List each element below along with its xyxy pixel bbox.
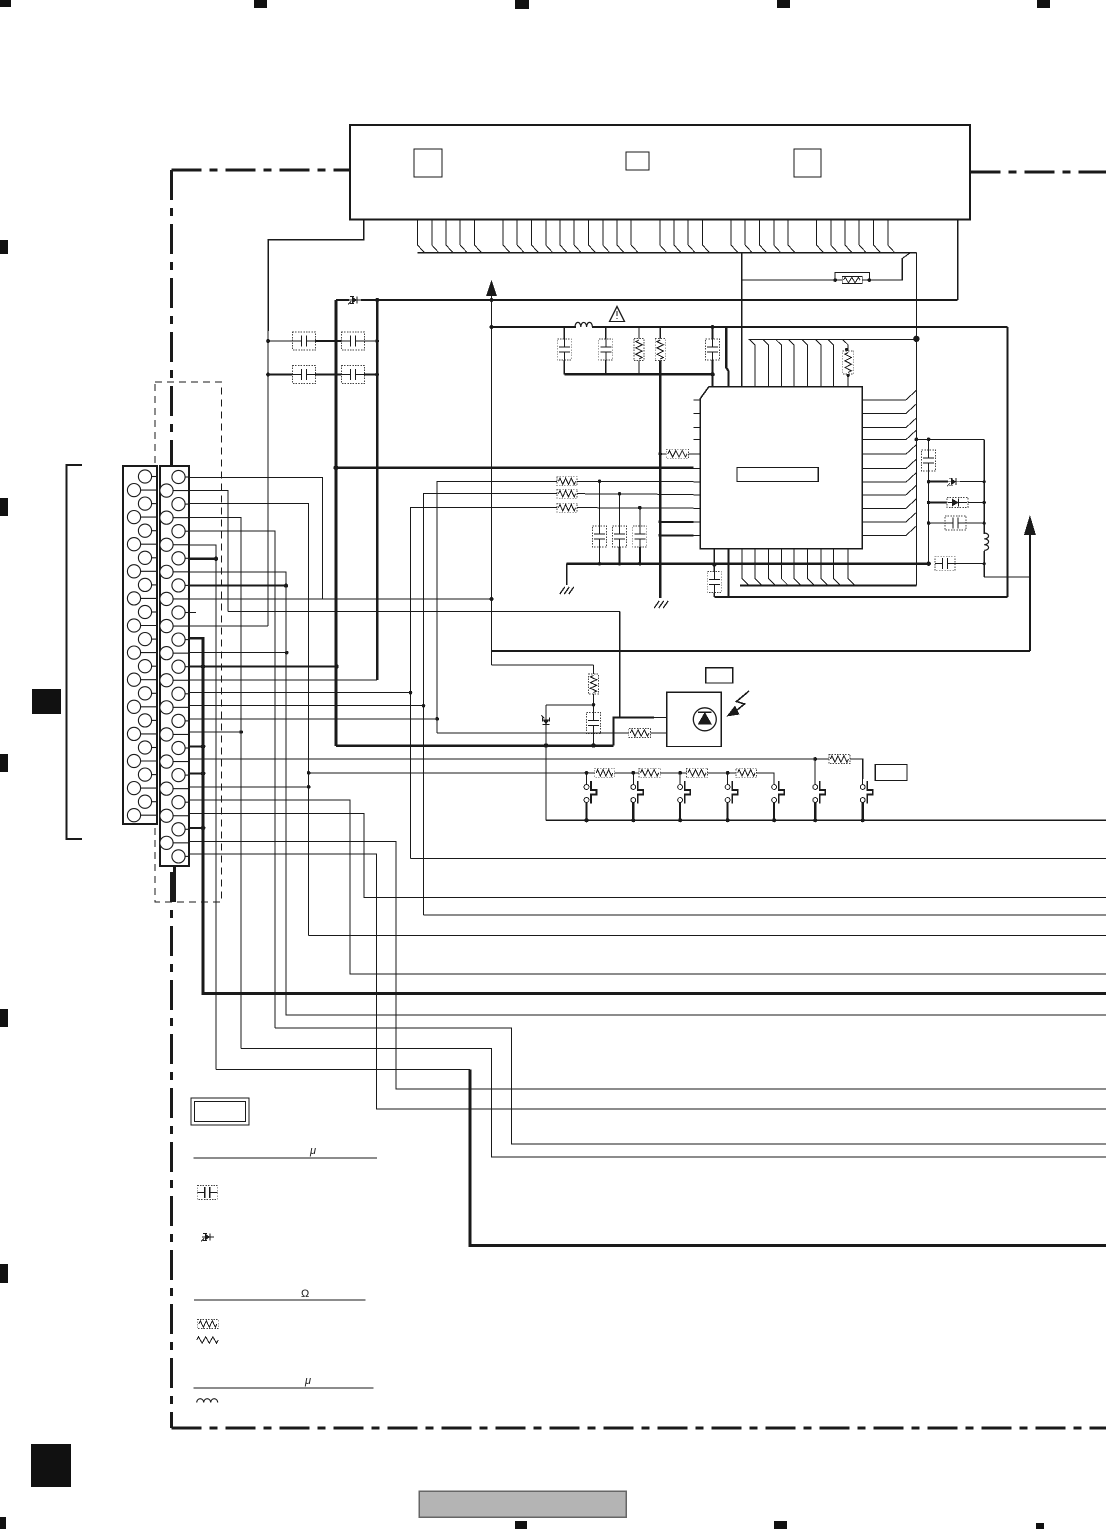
wire arrow column x1030	[1029, 529, 1031, 651]
wire cap row stems	[563, 327, 565, 339]
IR receiver U2	[667, 692, 721, 746]
wire net pin814	[189, 814, 1106, 898]
node x491/y599	[490, 597, 494, 601]
wire thick pin x728 down	[727, 549, 729, 597]
wire sw3 stem	[679, 773, 681, 779]
node line2/sw2	[631, 771, 635, 775]
zener D2	[947, 478, 960, 486]
wire x984 vertical	[983, 439, 985, 534]
capacitor C23 inline	[935, 557, 955, 571]
dash-dot page frame top-right segment	[971, 170, 1106, 173]
resistor R5	[842, 277, 862, 284]
CN2 left strip pin circles	[127, 470, 157, 822]
node line2/sw3	[678, 771, 682, 775]
wire thick vertical x377	[376, 300, 378, 680]
wire right cluster top y439	[916, 438, 984, 440]
node x984 on cap line	[983, 562, 986, 565]
bracket (left)	[67, 465, 83, 839]
wire switch ground line y820	[546, 819, 1106, 821]
capacitor C11	[557, 339, 571, 360]
node line2/sw1	[585, 771, 589, 775]
block inner square 3	[794, 149, 821, 177]
wire thick spine x336	[335, 300, 338, 746]
wire net pin517	[189, 518, 241, 1049]
resistor R5 bracket	[835, 273, 869, 281]
IR label box	[706, 668, 733, 683]
wire net pin787	[189, 786, 309, 788]
wire sw4 stem	[727, 773, 729, 779]
legend inductor	[197, 1399, 218, 1403]
legend zener	[201, 1234, 214, 1242]
capacitor C33	[633, 526, 647, 547]
arrow off-page (top middle)	[486, 280, 497, 296]
wire thick caps-row bottom y374	[564, 373, 712, 375]
wire net pin732	[189, 731, 241, 733]
wire net pin841	[189, 841, 1106, 1089]
wire VCC bus y300	[336, 299, 349, 301]
zener D2 row	[927, 480, 931, 484]
wire x546 down to switch gnd line	[545, 746, 547, 821]
wire fan y1070 to x470 thick	[216, 1069, 470, 1071]
capacitor C4	[342, 366, 365, 384]
node y564/x928	[927, 562, 931, 566]
resistor R34	[736, 768, 757, 777]
wire net pin490 to IR line	[189, 490, 228, 611]
node sw line1 / sw6	[813, 757, 817, 761]
wire stub pin612	[189, 612, 196, 614]
wire resistor line y481	[437, 481, 557, 733]
resistor R32	[639, 768, 660, 777]
wire to switch5	[757, 773, 775, 779]
capacitor C31	[593, 526, 607, 547]
capacitor C13 on pin x713	[706, 339, 720, 360]
wire thick stub pin746	[189, 745, 203, 747]
capacitor C12	[599, 339, 613, 360]
node line2/sw4	[726, 771, 730, 775]
legend double box	[191, 1098, 249, 1125]
wire thick vertical x660 to ground	[659, 361, 661, 599]
node pin x713 top	[711, 325, 715, 329]
node bus327 left end	[490, 325, 494, 329]
switch SW5	[772, 779, 784, 820]
diode D3 boxed row	[927, 501, 931, 505]
switch SW1	[584, 779, 596, 820]
switch label box	[875, 765, 907, 781]
wire thick pin x713 from bus	[712, 327, 714, 340]
warning triangle symbol	[610, 307, 625, 322]
svg-text:μ: μ	[304, 1375, 311, 1387]
lightning arrow into IR	[734, 691, 749, 713]
svg-text:μ: μ	[309, 1145, 316, 1157]
wire net pin531	[189, 531, 275, 1028]
IC U1 bottom pin harness	[742, 549, 855, 586]
footer gray box	[419, 1491, 626, 1517]
resistor R12	[655, 339, 665, 361]
resistor R33	[686, 768, 707, 777]
wire y564 left elbow to ground	[566, 564, 568, 585]
wire pin x715 to cap C14	[713, 549, 715, 572]
legend mu line 1	[193, 1157, 376, 1159]
legend plain resistor	[197, 1337, 219, 1343]
dash-dot page frame top-left segment	[172, 168, 350, 171]
wire thick IC pin535 feed	[660, 534, 693, 536]
connector block CN (top)	[350, 125, 970, 220]
wire thick IC pin522 feed	[660, 521, 693, 523]
node x984/y481	[983, 480, 986, 483]
capacitor C32	[613, 526, 627, 547]
wire thick y597 under IC	[714, 596, 1007, 598]
wire trunk line y339	[749, 338, 917, 340]
wire x928 vertical	[928, 439, 930, 563]
wire net pin652	[189, 652, 287, 654]
IC U1 right pin harness	[862, 390, 916, 535]
CN2 right strip pin circles	[160, 470, 189, 863]
wire net pin693	[189, 692, 411, 694]
node trunk fat dot	[913, 336, 919, 342]
node junction bus300/x377	[375, 298, 379, 302]
capacitor C14 under IC	[707, 572, 721, 593]
wire thick stub pin828	[189, 827, 203, 829]
wire x268 from block to pin626	[267, 331, 269, 626]
node pin x715 on thick y564	[712, 562, 716, 566]
wire y705 to zener	[546, 704, 594, 706]
wire fan y915	[424, 914, 1106, 916]
wire sw6 stem	[814, 759, 816, 784]
capacitor C2	[342, 332, 365, 350]
op IC U1 main microcontroller	[700, 387, 862, 549]
resistor R31	[595, 768, 615, 777]
node y439/x928	[927, 438, 931, 442]
wire thick pin x728 from bus	[726, 327, 728, 387]
wire switch line2 y773	[309, 772, 595, 774]
resistor R21	[589, 674, 599, 694]
wire thick stub pin558	[189, 558, 216, 560]
connector strip CN2 inner (right)	[160, 466, 189, 866]
wire x984 down to y577	[983, 564, 985, 577]
wire net pin854	[189, 854, 1106, 1109]
capacitor C22	[945, 516, 966, 530]
block inner square 1	[414, 149, 442, 177]
switch SW6	[813, 779, 825, 820]
wire trunk vertical x916	[915, 253, 917, 586]
IC U1 top pin harness	[742, 253, 849, 387]
legend resistor boxed	[197, 1320, 218, 1329]
node trunk/y439	[915, 438, 919, 442]
resistor R42	[557, 489, 577, 498]
dash-dot page frame bottom	[172, 1426, 1106, 1429]
wire thick stub pin585	[189, 584, 286, 586]
node cap stems on resistor lines	[598, 480, 602, 484]
wire IR column x620	[619, 612, 621, 718]
dash-dot page frame left vertical	[170, 170, 173, 1428]
block inner square 2	[626, 152, 649, 170]
diode D1 inline on bus	[348, 297, 361, 305]
wire thick elbow to IR pin	[614, 718, 655, 746]
capacitor C21	[922, 450, 936, 471]
wire to switch 7	[850, 759, 863, 779]
diode D3 in dotted box	[947, 498, 968, 508]
wire resistor line y494	[424, 494, 558, 915]
wire net pin477	[189, 477, 323, 599]
wire resistor line y508	[411, 508, 558, 859]
wire thick net pin638 spine x203	[189, 638, 1106, 993]
resistor R36	[829, 755, 850, 764]
wire thick stub pin773	[189, 772, 203, 774]
switch SW2	[631, 779, 643, 820]
node R5 right	[868, 278, 872, 282]
wire cap stems	[599, 481, 601, 526]
inductor L2	[984, 533, 988, 550]
arrow off-page (right)	[1024, 515, 1036, 535]
wire caps row y374	[268, 374, 293, 376]
wire thick y564 long	[567, 563, 929, 565]
wire net pin545	[189, 545, 216, 1070]
resistor R44	[666, 449, 688, 458]
wire sw1 stem	[586, 773, 588, 779]
wire y577 to arrow column	[984, 576, 1030, 578]
node x593/y705	[592, 703, 596, 707]
wire net pin800	[189, 800, 1106, 974]
wire fan y1028 to x511	[275, 1028, 1106, 1144]
capacitor C1	[293, 332, 316, 350]
wire fan y859	[411, 858, 1106, 860]
dashed board outline rectangle	[155, 382, 222, 902]
zener D4 vertical to bus	[545, 705, 547, 717]
wire thick x470 down	[470, 1070, 1106, 1246]
wire thick y467 to IC	[336, 467, 694, 469]
wire y651 long to x491	[492, 650, 1030, 652]
resistor R41	[557, 477, 577, 486]
wire thick vertical x1008	[1007, 327, 1009, 597]
wire fan y936	[309, 935, 1106, 937]
wire caps row y341	[268, 340, 293, 342]
wire R5 to trunk	[869, 253, 910, 280]
node caps bottom / pin x713	[710, 372, 714, 376]
resistor R43	[557, 503, 577, 512]
wire thick bus y745	[336, 744, 614, 747]
resistor R21 vertical	[593, 665, 595, 674]
resistor R44 to IC pin454	[658, 452, 662, 456]
node x546 on thick bus744	[544, 743, 548, 747]
wire net pin503 to switch line2	[189, 504, 309, 936]
capacitor C24	[587, 713, 601, 734]
wire bus y327	[492, 326, 577, 328]
wire cap bottoms to y564	[599, 547, 601, 564]
wire thick strip tail	[173, 866, 176, 902]
wire long vertical x491	[491, 293, 493, 665]
wire hook baseline y586	[740, 585, 916, 587]
IR photodiode circle	[693, 708, 716, 731]
IC U1 left pin stubs	[694, 400, 701, 536]
connector block pins	[418, 220, 895, 253]
capacitor C3	[293, 366, 316, 384]
resistor R11	[634, 339, 644, 361]
node junction bus300/x491	[490, 298, 494, 302]
wire y599 from connector	[189, 598, 492, 600]
resistor R22	[629, 729, 651, 738]
wire y611 from connector to IR column	[228, 611, 620, 613]
legend capacitor	[197, 1186, 217, 1200]
wire fan y1049 to x491	[241, 1049, 1106, 1158]
wire thick bus pin666	[189, 665, 337, 667]
switch SW4	[725, 779, 737, 820]
wire net pin680 to x377	[189, 679, 377, 681]
wire resistor line y280 under block	[742, 279, 835, 281]
wire net pin625	[189, 625, 268, 627]
zener D4	[542, 716, 550, 729]
wire block-left elbow	[268, 220, 364, 332]
switch SW7	[860, 779, 872, 820]
wire net pin706	[189, 705, 424, 707]
resistor R13	[843, 351, 854, 374]
node x593 on thick bus744	[591, 743, 595, 747]
capacitor C22 row	[927, 521, 931, 525]
IC label box	[737, 468, 818, 482]
wire net pin572	[189, 572, 1106, 1015]
switch SW3	[678, 779, 690, 820]
ground G1	[560, 587, 574, 594]
legend mu line 2	[193, 1387, 373, 1389]
inductor L1 inline on bus	[575, 322, 592, 327]
legend ohm line	[194, 1299, 366, 1301]
ground G2	[654, 601, 668, 608]
pin baseline wire	[418, 252, 917, 254]
wire sw2 stem	[632, 773, 634, 779]
connector strip CN2 outer (left)	[123, 466, 157, 824]
wire x491 elbow y665	[492, 664, 594, 666]
wire switch line1 y759	[189, 758, 815, 760]
wire net pin719	[189, 718, 437, 720]
wire y733 resistor line from x437	[437, 732, 629, 734]
wire bus up to block	[957, 220, 959, 301]
node T-junctions on feed verticals	[409, 691, 413, 695]
node R5 left	[833, 278, 837, 282]
svg-text:Ω: Ω	[301, 1288, 309, 1300]
